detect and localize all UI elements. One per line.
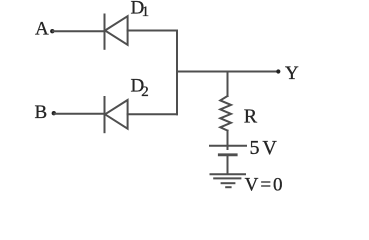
svg-text:R: R [244,105,258,127]
svg-text:5: 5 [250,137,260,159]
battery positive plate (long) [210,145,246,147]
label 5 V [250,137,278,159]
label D1 [131,0,150,20]
wire B to D2 [55,113,105,115]
node A [35,19,49,40]
resistor R zigzag [220,96,231,131]
label V = 0 [245,174,283,195]
label R [244,105,258,127]
wire D2 to bus [128,113,177,115]
diode D2 triangle [105,100,128,129]
terminal dot A [50,29,54,33]
diode D2 cathode bar [104,97,106,132]
svg-text:A: A [35,19,49,40]
battery negative plate (short) [219,153,236,156]
node Y [285,63,299,84]
wire junction to resistor [227,72,229,97]
wire battery to ground [227,155,229,174]
svg-text:V=0: V=0 [245,174,283,195]
terminal dot Y [276,69,280,73]
svg-text:2: 2 [141,84,149,100]
svg-text:Y: Y [285,63,299,84]
wire A to D1 [53,30,105,32]
wire bus to output Y [177,71,278,73]
ground [211,174,246,187]
wire bus vertical [176,31,178,115]
label D2 [131,76,149,101]
diode D1 cathode bar [104,15,106,49]
node B [35,102,48,123]
wire D1 to bus [128,30,177,32]
wire resistor to battery [227,131,229,149]
svg-text:B: B [35,102,48,123]
svg-text:V: V [262,137,277,159]
terminal dot B [52,111,56,115]
diode D1 triangle [105,16,128,45]
svg-text:1: 1 [142,4,150,20]
